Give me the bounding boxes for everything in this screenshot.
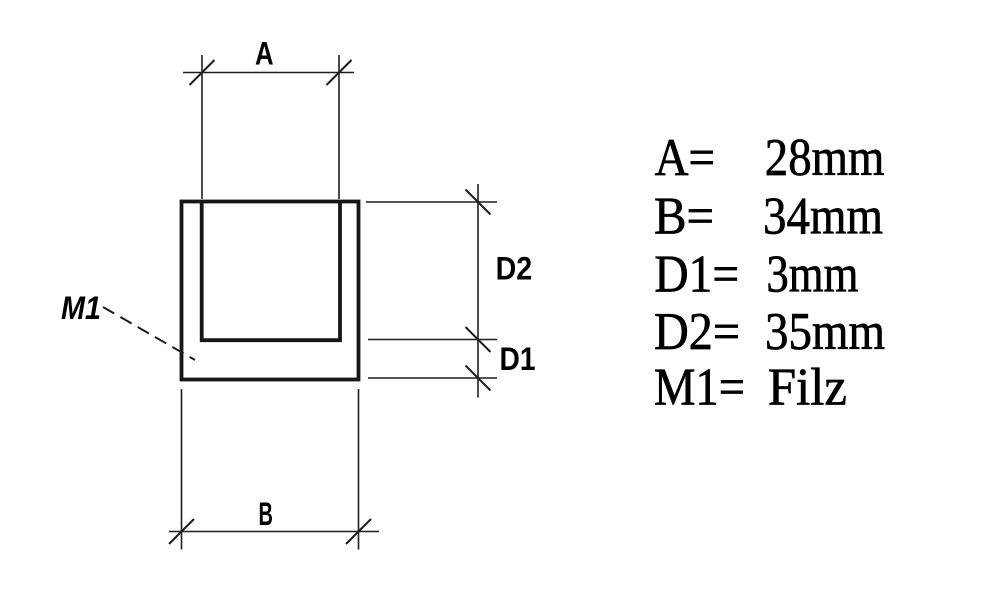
svg-text:D2=: D2=: [654, 303, 740, 361]
svg-text:3mm: 3mm: [766, 246, 858, 304]
svg-text:D1=: D1=: [654, 246, 739, 304]
svg-text:M1=: M1=: [654, 359, 745, 417]
svg-text:B: B: [259, 496, 273, 532]
svg-text:34mm: 34mm: [763, 187, 883, 245]
svg-text:B=: B=: [654, 187, 714, 245]
svg-text:A: A: [255, 36, 274, 72]
svg-text:D2: D2: [496, 250, 533, 286]
svg-text:Filz: Filz: [768, 359, 847, 417]
svg-text:A=: A=: [655, 129, 715, 187]
svg-text:D1: D1: [500, 341, 536, 377]
svg-text:35mm: 35mm: [765, 303, 885, 361]
svg-text:M1: M1: [61, 290, 101, 326]
svg-text:28mm: 28mm: [765, 129, 885, 187]
